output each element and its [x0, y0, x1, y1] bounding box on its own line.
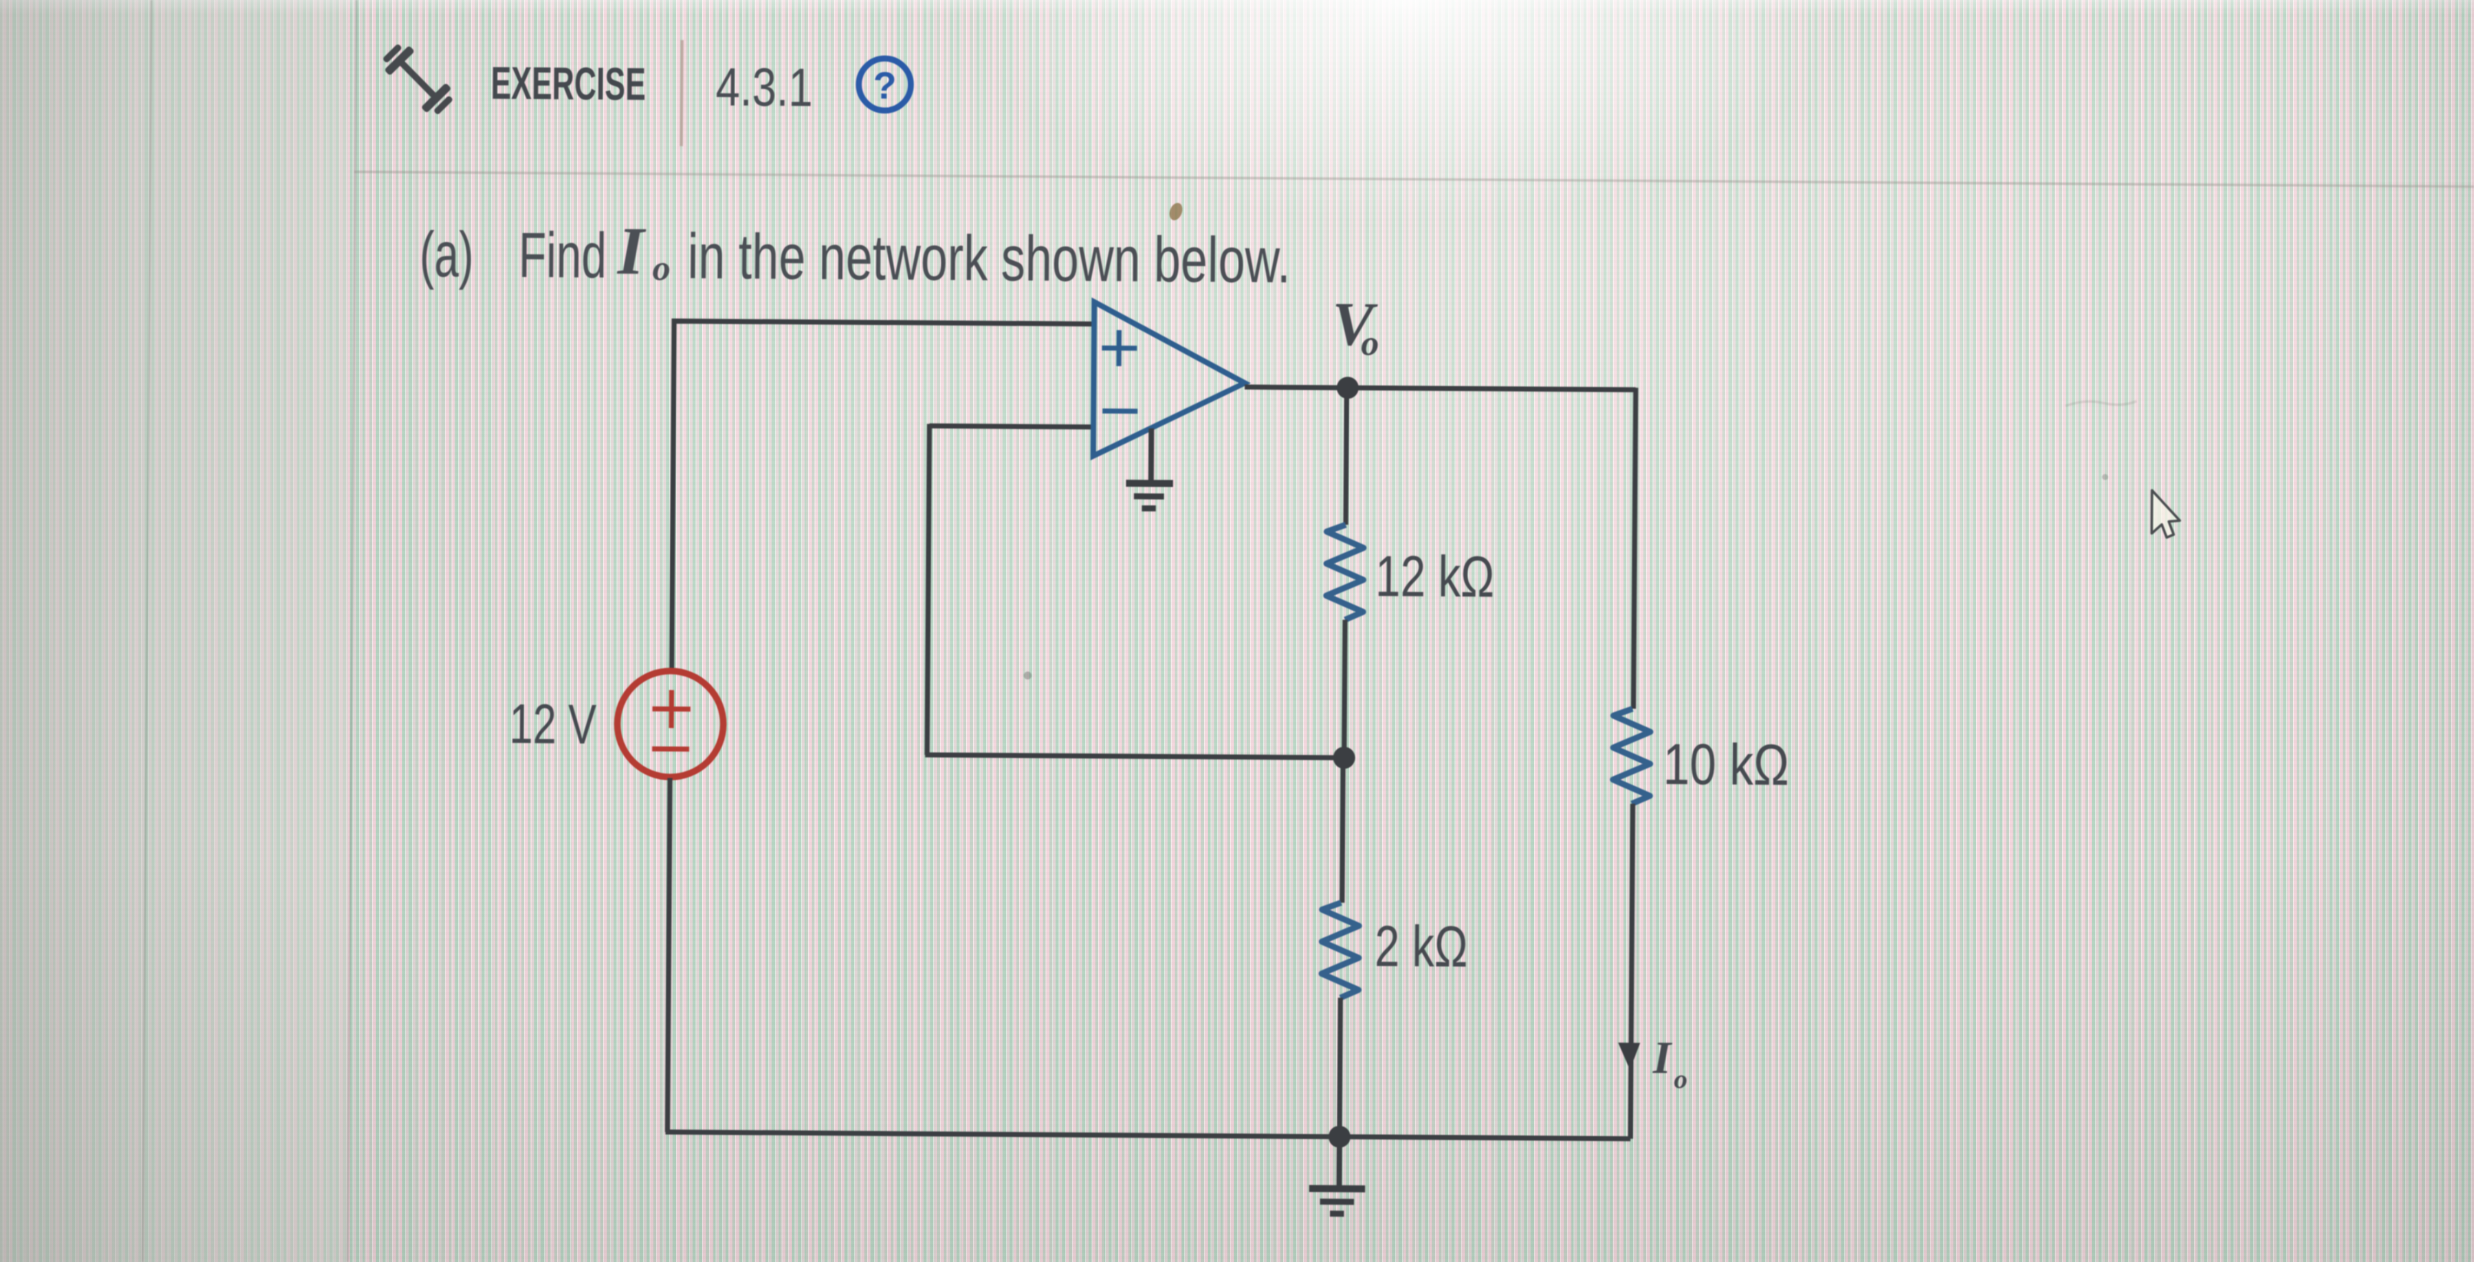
ground bottom	[1309, 1137, 1366, 1214]
svg-text:in the network shown below.: in the network shown below.	[687, 220, 1290, 296]
wire node A down to R2	[1342, 758, 1343, 903]
svg-text:(a): (a)	[419, 218, 474, 290]
svg-text:EXERCISE: EXERCISE	[491, 57, 646, 110]
wire right branch upper	[1633, 388, 1635, 709]
wire source bottom to bottom rail	[667, 778, 669, 1132]
svg-text:12 kΩ: 12 kΩ	[1375, 544, 1494, 610]
svg-text:I: I	[1652, 1032, 1673, 1083]
wire bottom rail	[665, 1132, 1630, 1139]
mouse cursor	[2152, 490, 2180, 537]
faint scuff mark	[2066, 401, 2137, 406]
wire R2 to bottom rail	[1337, 998, 1343, 1137]
node A	[1333, 747, 1355, 769]
wire feedback lower horizontal to node A	[925, 755, 1344, 758]
wire right branch lower	[1630, 804, 1632, 1139]
dust speck tiny	[2102, 474, 2108, 480]
op-amp ground	[1126, 428, 1174, 508]
wire top from source to op-amp + input	[672, 321, 1094, 675]
wire feedback vertical	[927, 424, 929, 755]
resistor R1 12 kOhm	[1326, 525, 1364, 620]
header bottom border	[354, 172, 2474, 187]
wire op-amp output to right branch corner	[1245, 387, 1636, 390]
help icon	[859, 58, 911, 110]
wire R1 to node A	[1342, 620, 1348, 758]
svg-text:4.3.1: 4.3.1	[716, 57, 813, 118]
svg-text:10 kΩ: 10 kΩ	[1663, 732, 1789, 798]
resistor R2 2 kOhm	[1321, 903, 1359, 998]
svg-text:12 V: 12 V	[509, 692, 597, 756]
panel seam right	[348, 0, 357, 1262]
svg-text:o: o	[652, 248, 670, 288]
svg-text:?: ?	[873, 65, 897, 107]
op-amp U1	[1093, 302, 1245, 457]
svg-text:o: o	[1674, 1064, 1688, 1094]
svg-text:2 kΩ: 2 kΩ	[1375, 914, 1468, 980]
wire feedback upper horizontal to op-amp - input	[929, 426, 1093, 427]
dust speck small	[1024, 672, 1032, 680]
node Vo	[1337, 377, 1359, 399]
node ground bottom	[1328, 1126, 1350, 1148]
voltage source V1 12 V	[617, 671, 724, 778]
header divider	[680, 40, 684, 146]
current arrow Io	[1618, 1043, 1640, 1070]
panel seam left	[143, 0, 152, 1262]
wire node Vo down to R1	[1343, 388, 1349, 525]
svg-text:o: o	[1361, 323, 1379, 363]
exercise dumbbell icon	[378, 39, 458, 120]
dust speck brown	[1167, 201, 1185, 222]
resistor R3 10 kOhm	[1613, 709, 1651, 804]
svg-text:I: I	[616, 213, 647, 289]
svg-text:Find: Find	[518, 219, 607, 292]
